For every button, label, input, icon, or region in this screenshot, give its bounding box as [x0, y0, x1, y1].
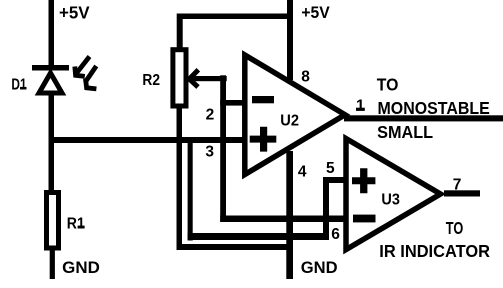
light arrow 1 head	[75, 67, 85, 77]
wire pin2 stub into U2	[220, 100, 247, 106]
light arrow 1 shaft	[77, 57, 90, 74]
svg-text:6: 6	[331, 226, 340, 243]
U2 plus symbol	[250, 127, 277, 152]
pin 1 wire stub under label	[356, 108, 365, 111]
svg-text:GND: GND	[301, 258, 338, 277]
svg-text:TO: TO	[377, 74, 399, 94]
svg-text:U2: U2	[280, 112, 299, 129]
wire pin5 vertical up	[323, 177, 329, 240]
svg-text:R1: R1	[67, 215, 85, 232]
svg-text:SMALL: SMALL	[377, 122, 433, 142]
wire +5V left vertical	[49, 0, 55, 66]
svg-text:TO: TO	[446, 218, 464, 238]
wire R1 to GND	[50, 250, 55, 279]
wire W1 pin6 run	[220, 216, 348, 223]
svg-text:5: 5	[326, 160, 335, 177]
svg-text:U3: U3	[381, 192, 400, 209]
wire D1 anode down to R1	[49, 93, 55, 190]
wire branch vertical signal down	[188, 137, 193, 241]
svg-text:IR INDICATOR: IR INDICATOR	[379, 241, 490, 261]
op-amp U2 triangle	[245, 55, 345, 175]
light arrow 2 shaft	[85, 66, 96, 83]
light arrow 2 head	[86, 79, 97, 89]
photodiode D1 cathode bar	[32, 65, 69, 71]
svg-text:2: 2	[206, 107, 215, 124]
resistor R1 body	[47, 193, 59, 249]
op-amp U3 triangle	[346, 139, 441, 250]
svg-text:R2: R2	[142, 72, 160, 89]
svg-text:8: 8	[301, 69, 310, 86]
svg-text:MONOSTABLE: MONOSTABLE	[378, 98, 490, 118]
wire pin4 vertical to GND	[286, 151, 293, 279]
wire +5V top horizontal to R2	[177, 14, 290, 20]
svg-text:3: 3	[205, 143, 214, 160]
R2 bottom lead down to GND run	[177, 106, 183, 250]
wire U3 output pin7	[444, 190, 480, 196]
U3 minus symbol	[353, 215, 376, 223]
wire pin5 stub into U3	[323, 177, 348, 183]
U2 minus symbol	[252, 96, 274, 103]
U3 plus symbol	[352, 168, 375, 193]
svg-text:4: 4	[298, 164, 307, 181]
wire W2 pin5 run	[188, 233, 329, 240]
wire R2 top lead	[177, 19, 183, 49]
photodiode D1 triangle	[39, 73, 62, 93]
svg-text:+5V: +5V	[301, 3, 330, 22]
R2 wiper arrowhead	[189, 70, 198, 87]
svg-text:GND: GND	[62, 258, 100, 277]
wire W3 ground run to pin4	[177, 244, 294, 250]
svg-text:D1: D1	[11, 77, 26, 94]
svg-text:7: 7	[453, 177, 462, 194]
D1 digit foot serif	[20, 87, 27, 90]
wire signal node horizontal to U2 pin3	[49, 137, 247, 143]
wire U2 output pin1	[344, 115, 503, 121]
svg-text:+5V: +5V	[59, 2, 90, 22]
wire +5V right vertical pin8	[287, 0, 293, 80]
R2 wiper horizontal wire	[191, 76, 227, 81]
wire wiper vertical down	[220, 75, 226, 222]
R1 digit foot serif	[78, 226, 85, 229]
potentiometer R2 body	[173, 50, 186, 106]
svg-text:1: 1	[356, 98, 365, 115]
